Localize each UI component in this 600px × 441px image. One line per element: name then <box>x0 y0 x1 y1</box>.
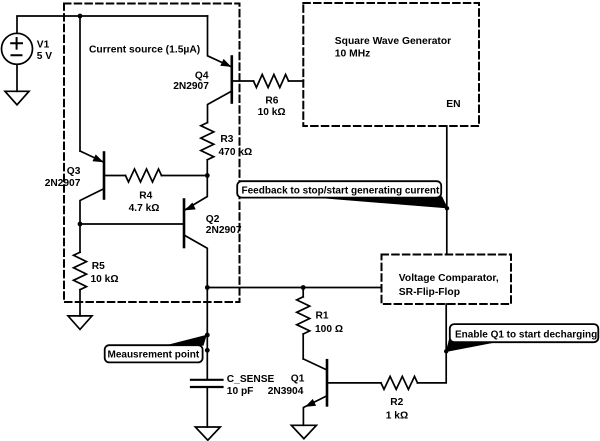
wire V1 top to rail <box>17 16 208 33</box>
resistor R1 <box>297 288 310 359</box>
svg-text:10 kΩ: 10 kΩ <box>258 107 286 118</box>
resistor R6 <box>232 75 303 88</box>
transistor Q3 (PNP 2N2907) <box>80 151 104 224</box>
voltage source V1 <box>2 33 33 64</box>
wire node to comparator box <box>207 287 381 289</box>
transistor Q4 (PNP 2N2907) <box>208 16 232 123</box>
resistor R2 <box>327 304 446 389</box>
svg-text:4.7 kΩ: 4.7 kΩ <box>129 203 160 214</box>
svg-text:2N2907: 2N2907 <box>45 178 81 189</box>
wire Q2 base to left node <box>80 223 184 225</box>
svg-text:100 Ω: 100 Ω <box>315 324 343 335</box>
svg-text:R2: R2 <box>390 397 403 408</box>
node (R3/R4/Q2 junction) <box>205 173 210 178</box>
svg-text:10 pF: 10 pF <box>227 386 254 397</box>
wire measurement node down to capacitor <box>206 288 208 380</box>
svg-text:2N2907: 2N2907 <box>206 225 242 236</box>
svg-text:C_SENSE: C_SENSE <box>227 374 275 385</box>
svg-text:Current source (1.5µA): Current source (1.5µA) <box>89 45 200 56</box>
node (measurement point upper) <box>205 333 210 338</box>
svg-text:2N2907: 2N2907 <box>173 81 209 92</box>
ground (R5) <box>68 316 92 330</box>
callout: feedback <box>237 181 448 208</box>
svg-text:Square Wave Generator: Square Wave Generator <box>335 36 451 47</box>
wire rail junction down to Q3 <box>79 16 81 151</box>
transistor Q1 (NPN 2N3904) <box>303 359 327 425</box>
svg-text:2N3904: 2N3904 <box>268 386 304 397</box>
svg-text:SR-Flip-Flop: SR-Flip-Flop <box>399 287 460 298</box>
svg-text:R6: R6 <box>265 96 278 107</box>
capacitor C_SENSE <box>191 380 223 387</box>
node (R1 top) <box>301 285 306 290</box>
ground (V1) <box>5 91 29 105</box>
node A (rail junction) <box>78 14 83 19</box>
resistor R4 <box>104 169 207 182</box>
svg-text:Meausrement point: Meausrement point <box>108 350 200 361</box>
dashed box: current source <box>64 4 240 303</box>
node (measurement point lower) <box>205 348 210 353</box>
resistor R3 <box>201 123 214 176</box>
svg-text:R4: R4 <box>139 191 152 202</box>
callout: measurement point <box>105 335 207 363</box>
svg-text:10 kΩ: 10 kΩ <box>91 274 119 285</box>
svg-text:Q3: Q3 <box>67 166 81 177</box>
svg-text:Enable Q1 to start decharging: Enable Q1 to start decharging <box>455 329 597 340</box>
resistor R5 <box>74 224 87 316</box>
node (feedback pointer tip) <box>445 206 449 210</box>
dashed box: voltage comparator <box>382 255 512 305</box>
svg-text:10 MHz: 10 MHz <box>335 49 370 60</box>
ground (Q1) <box>291 425 316 438</box>
svg-text:470 kΩ: 470 kΩ <box>219 147 253 158</box>
svg-text:R3: R3 <box>220 134 233 145</box>
svg-text:Q2: Q2 <box>206 214 220 225</box>
dashed box: square wave generator <box>303 3 479 126</box>
node (Q3 collector / R5 / Q2 base) <box>78 222 83 227</box>
node (enable pointer tip) <box>444 349 448 353</box>
svg-text:R5: R5 <box>92 261 105 272</box>
svg-text:R1: R1 <box>316 311 329 322</box>
svg-text:Feedback to stop/start generat: Feedback to stop/start generating curren… <box>242 186 440 197</box>
svg-text:1 kΩ: 1 kΩ <box>386 410 408 421</box>
svg-text:Q1: Q1 <box>291 373 305 384</box>
svg-text:V1: V1 <box>37 39 50 50</box>
wire V1 bottom <box>16 64 18 91</box>
svg-text:Q4: Q4 <box>195 70 209 81</box>
node (Q2 collector / wire to comparator) <box>205 285 210 290</box>
ground (C_SENSE) <box>195 427 220 440</box>
svg-text:Voltage Comparator,: Voltage Comparator, <box>399 273 499 284</box>
transistor Q2 (PNP 2N2907) <box>184 176 207 288</box>
wire EN to comparator <box>446 126 448 255</box>
svg-text:EN: EN <box>446 99 460 110</box>
callout: enable Q1 <box>446 324 599 352</box>
svg-text:5 V: 5 V <box>37 51 52 62</box>
